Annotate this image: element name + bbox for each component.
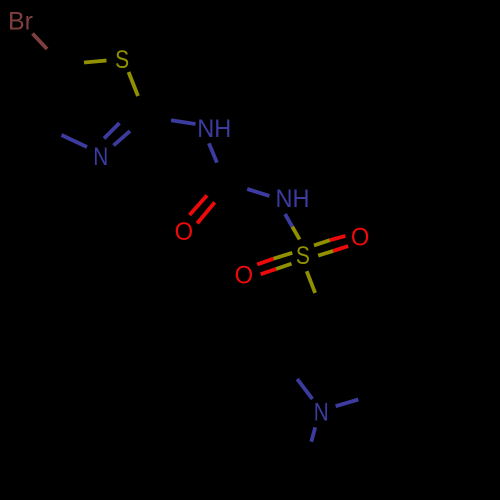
- wire C2'-N1' pyrrolidine (nitrogen half): [297, 379, 312, 399]
- wire C5-S1 (sulfur half): [84, 61, 107, 63]
- svg-text:O: O: [175, 218, 194, 246]
- wire S8=O9 left, line 1 oxygen half: [257, 259, 273, 265]
- wire S8-C3' pyrrolidine (sulfur half): [307, 271, 315, 293]
- svg-text:Br: Br: [8, 8, 33, 36]
- wire S1-C2 (sulfur half): [129, 72, 139, 96]
- wire N(H)-S8 (nitrogen half): [285, 214, 292, 227]
- wire S8=O10 right, line 1 oxygen half: [330, 236, 346, 240]
- svg-text:N: N: [93, 143, 108, 171]
- svg-text:NH: NH: [197, 115, 231, 143]
- wire S8=O9 left, line 2 oxygen half: [261, 269, 276, 274]
- svg-text:N: N: [314, 399, 329, 427]
- svg-text:S: S: [296, 242, 310, 270]
- wire C6=O7 line 2 (oxygen half): [197, 202, 215, 223]
- wire N1'-C5' pyrrolidine (nitrogen half): [336, 400, 359, 407]
- wire C2-N(H) urea (nitrogen half): [171, 120, 196, 124]
- wire Br-C5 (bromine half): [33, 34, 48, 50]
- wire C6-N(H) sulfamoyl (nitrogen half): [247, 189, 269, 196]
- wire S8=O9 left, line 2 sulfur half: [276, 264, 291, 269]
- wire S8=O10 right, line 2 sulfur half: [318, 251, 333, 256]
- wire N(H)-S8 (sulfur half): [292, 227, 299, 240]
- wire C2=N3 inner line (nitrogen half): [104, 123, 120, 139]
- svg-text:S: S: [115, 46, 129, 74]
- wire N(H)-C6 (nitrogen half): [209, 143, 217, 162]
- wire N1'-CH3 methyl (nitrogen half): [311, 427, 315, 441]
- wire S8=O10 right, line 1 sulfur half: [314, 240, 330, 245]
- wire C2=N3 main line (nitrogen half): [114, 131, 131, 146]
- svg-text:NH: NH: [276, 185, 310, 213]
- wire C6=O7 line 1 (oxygen half): [190, 195, 208, 215]
- wire C4-N3 (nitrogen half): [62, 135, 88, 147]
- wire S8=O10 right, line 2 oxygen half: [333, 246, 348, 251]
- wire S8=O9 left, line 1 sulfur half: [274, 253, 293, 259]
- svg-text:O: O: [351, 224, 370, 252]
- svg-text:O: O: [235, 262, 254, 290]
